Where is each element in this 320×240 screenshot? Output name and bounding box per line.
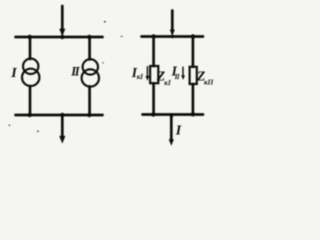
svg-text:II: II	[70, 65, 81, 79]
wire: branch ZкI lower lead	[152, 83, 155, 114]
junction dot: bottom rail / branch I	[28, 113, 32, 117]
junction dot: top rail / branch ZкII	[191, 34, 195, 38]
wire: branch ZкII upper lead	[192, 37, 195, 67]
wire: top bus rail, right diagram	[142, 35, 204, 38]
arrowhead: output current of left diagram	[59, 136, 65, 144]
junction dot: bottom rail / branch ZкI	[151, 112, 155, 116]
svg-text:I: I	[175, 124, 182, 139]
arrowhead: feeder current into left diagram	[59, 29, 65, 37]
wire: incoming feeder line, left diagram	[61, 6, 64, 31]
wire: branch I upper lead	[29, 37, 32, 59]
wire: branch ZкII lower lead	[192, 84, 195, 115]
junction dot: bottom rail / output, left	[60, 113, 64, 117]
wire: short-circuit output line, right diagram	[170, 115, 173, 141]
generator G-II (two overlapped circles), top circle	[83, 59, 98, 74]
wire: bottom bus rail, left diagram	[16, 114, 103, 117]
wire: branch II upper lead	[88, 37, 91, 59]
junction dot: bottom rail / branch II	[87, 113, 91, 117]
wire: bottom bus rail, right diagram	[143, 113, 204, 116]
speck (scan noise) below left rail	[37, 131, 39, 132]
junction dot: top rail / branch I	[28, 35, 32, 39]
generator G-II, bottom circle	[82, 69, 99, 86]
junction dot: top rail / feeder, right	[171, 35, 175, 39]
wire: branch II lower lead	[88, 86, 91, 115]
svg-text:I: I	[10, 66, 17, 81]
generator G-I (two overlapped circles), top circle	[23, 59, 38, 74]
speck (scan noise) mid gap near top rail	[121, 36, 123, 37]
impedance ZкI box	[150, 66, 158, 83]
wire: branch ZкI upper lead	[152, 37, 155, 67]
current arrow IкII (beside ZкII box)	[181, 67, 185, 80]
junction dot: top rail / branch II	[87, 35, 91, 39]
wire: branch I lower lead	[29, 86, 32, 115]
speck (scan noise) above left diagram	[104, 21, 106, 23]
junction dot: top rail / feeder, left	[60, 35, 64, 39]
wire: outgoing line, left diagram	[61, 115, 64, 137]
generator G-I, bottom circle	[22, 69, 39, 86]
wire: top bus rail, left diagram	[16, 36, 103, 39]
junction dot: top rail / branch ZкI	[151, 34, 155, 38]
impedance ZкII box	[190, 67, 197, 84]
junction dot: bottom rail / branch ZкII	[191, 112, 195, 116]
arrowhead: short-circuit current I, right diagram	[169, 139, 174, 146]
junction dot: bottom rail / output, right	[169, 114, 174, 120]
svg-text:кII: кII	[204, 79, 213, 87]
speck (scan noise) right of branch II	[102, 62, 103, 63]
current arrow IкI (beside ZкI box)	[146, 66, 150, 81]
speck (scan noise) lower left	[9, 125, 11, 126]
svg-text:кI: кI	[164, 79, 171, 87]
svg-text:кI: кI	[137, 73, 144, 81]
arrowhead: feeder current into right diagram	[170, 30, 175, 37]
svg-text:II: II	[174, 74, 180, 81]
wire: incoming feeder line, right diagram	[171, 11, 174, 31]
